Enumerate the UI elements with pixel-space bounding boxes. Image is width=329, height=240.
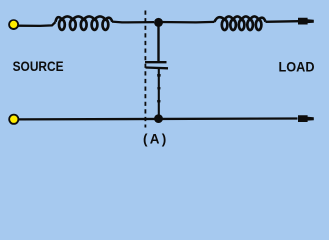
svg-text:SOURCE: SOURCE <box>13 59 64 74</box>
svg-text:LOAD: LOAD <box>279 59 315 74</box>
svg-text:(A): (A) <box>143 132 166 147</box>
